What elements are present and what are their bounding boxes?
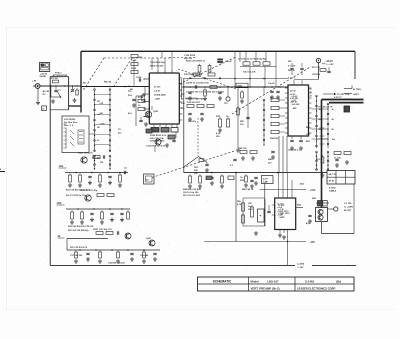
supply entry circle <box>316 58 320 62</box>
svg-text:1/2b: 1/2b <box>57 202 62 205</box>
svg-text:45A: 45A <box>297 204 301 207</box>
svg-text:C39 R40: C39 R40 <box>140 254 149 257</box>
wire IC3 down to border <box>287 230 289 266</box>
legend small box lower <box>42 106 47 111</box>
volts-div switch box S102 <box>62 116 89 153</box>
wire vertical x184 <box>183 79 185 173</box>
ground C175 <box>206 168 208 170</box>
svg-text:C31 R32 100 C33 10p R35: C31 R32 100 C33 10p R35 220 C36 R37 <box>186 92 225 94</box>
transistor Q2a <box>81 157 87 163</box>
svg-text:L16V: L16V <box>248 209 254 211</box>
IC301 left pins <box>272 204 275 206</box>
wire attenuator to IC1 <box>81 86 149 88</box>
svg-text:47p: 47p <box>306 222 310 225</box>
resistor top right <box>320 69 326 72</box>
svg-text:VERT. PREAMP (5b-2): VERT. PREAMP (5b-2) <box>251 287 280 291</box>
wire IC1 to IC2 main signal <box>182 86 288 88</box>
capacitor on x248 <box>246 116 249 118</box>
svg-text:C106: C106 <box>136 77 142 79</box>
svg-text:- 4287: - 4287 <box>154 98 161 101</box>
svg-text:C65 C66 0.1: C65 C66 0.1 <box>288 150 301 152</box>
svg-text:x10: x10 <box>97 114 100 116</box>
wire +15V rail <box>260 189 307 191</box>
resistor R60 vertical <box>242 201 244 203</box>
switch wafer right A contacts <box>316 96 318 148</box>
svg-text:C201 R202 22p: C201 R202 22p <box>150 62 165 64</box>
switch wafer contacts left of IC2 <box>263 100 265 145</box>
IC101 preamp block <box>149 73 179 124</box>
svg-text:1/2a: 1/2a <box>59 165 64 168</box>
capacitor C110 <box>139 119 142 121</box>
svg-text:Q101: Q101 <box>153 111 159 113</box>
IC301 right pin <box>296 207 303 209</box>
vertical join 3b <box>66 239 68 251</box>
dashed board outline diagonal D3 <box>152 151 236 178</box>
resistor R111 <box>138 108 145 111</box>
wire from switch to ladder <box>89 133 95 135</box>
attenuator switch wafer S1-B contacts <box>109 90 111 152</box>
page edge bottom <box>5 309 395 311</box>
ground right ladder <box>322 173 324 175</box>
resistor R61 vertical <box>242 213 244 215</box>
capacitor C106 <box>138 78 140 81</box>
svg-text:3P 41: 3P 41 <box>329 180 335 183</box>
IC101 bottom pins <box>153 124 155 127</box>
svg-text:41: 41 <box>310 88 312 91</box>
svg-text:1M: 1M <box>97 101 100 103</box>
svg-text:MODE: MODE <box>40 76 47 78</box>
svg-text:Model: Model <box>251 279 259 283</box>
coupling switch arm <box>57 91 61 97</box>
resistor R172 <box>207 105 214 108</box>
transistor Q102 <box>155 139 161 145</box>
svg-text:41 TRIG: 41 TRIG <box>353 88 361 91</box>
resistor R174 vertical <box>227 117 229 119</box>
IC301 trigger pickoff block <box>275 198 296 230</box>
svg-text:S1-2 ATT: S1-2 ATT <box>92 157 102 160</box>
resistor R2b1 <box>97 194 104 197</box>
svg-text:+: + <box>260 214 262 218</box>
wire input to attenuator <box>40 85 50 87</box>
right ladder lower section A <box>316 152 318 170</box>
svg-text:R31 C32 R33 4.7k: R31 C32 R33 4.7k <box>70 246 88 249</box>
hanging comps 3b <box>75 250 77 252</box>
wire rail 1-2a <box>65 172 128 174</box>
svg-text:1M: 1M <box>97 127 100 129</box>
svg-text:→ +15V: → +15V <box>307 190 316 192</box>
capacitor top right <box>327 70 330 72</box>
wire column left of IC1 <box>133 60 135 87</box>
capacitor C160 <box>194 85 196 88</box>
capacitor C170 <box>188 112 191 114</box>
svg-text:+ IN: + IN <box>32 81 36 83</box>
resistor R161 to ground <box>204 88 206 90</box>
svg-text:R15 R16 R17: R15 R16 R17 <box>187 102 201 104</box>
title block column divider 1 <box>248 277 250 291</box>
capacitor C152 <box>290 67 293 69</box>
resistor R50 <box>334 152 341 155</box>
wire rail 3b upper <box>67 238 108 240</box>
ground input box <box>52 99 54 101</box>
resistor R152 <box>253 62 260 65</box>
svg-text:u A 01: u A 01 <box>154 90 161 93</box>
svg-text:R1 1M: R1 1M <box>51 78 58 80</box>
svg-text:LBO-517: LBO-517 <box>267 279 279 283</box>
trim cap above IC3 <box>250 179 253 181</box>
svg-text:x2: x2 <box>97 140 99 142</box>
svg-text:→ +15.2V: → +15.2V <box>323 61 334 63</box>
right ladder lower section B <box>327 152 329 170</box>
wire long rail y173 <box>184 172 327 174</box>
transistor Q101 <box>145 111 151 117</box>
svg-text:(+28V): (+28V) <box>298 263 305 265</box>
resistor R106 <box>142 93 144 95</box>
svg-text:4.2V P-P: 4.2V P-P <box>334 96 342 99</box>
dashed vertical near peak <box>197 118 199 156</box>
svg-text:41 B: 41 B <box>353 99 358 102</box>
IC101 left pins <box>143 78 149 80</box>
ladder rung ticks left <box>95 94 111 96</box>
resistor R171 <box>197 105 204 108</box>
svg-text:G 1 YEL: G 1 YEL <box>344 203 353 205</box>
svg-text:VOLTS/DIV: VOLTS/DIV <box>64 119 76 121</box>
IC301 top pins <box>278 194 280 198</box>
svg-text:50m .1 .2: 50m .1 .2 <box>64 125 74 127</box>
IC101 right pins <box>179 77 182 79</box>
board border left <box>49 77 51 266</box>
cluster right of y173 rail comps <box>245 174 247 176</box>
resistor R110 <box>138 100 145 103</box>
svg-text:IC 101: IC 101 <box>154 87 161 89</box>
electrolytic capacitor C60 <box>258 209 265 222</box>
svg-text:47u: 47u <box>128 112 132 115</box>
junction diode pair <box>318 201 322 207</box>
test point TP1 <box>226 97 230 101</box>
svg-text:C150 R150: C150 R150 <box>184 55 196 57</box>
wire rail 3b lower <box>67 249 160 251</box>
resistor R2b2 <box>107 194 114 197</box>
stub supply to IC2 <box>318 63 320 80</box>
wire <box>135 96 137 126</box>
svg-text:(5b): (5b) <box>336 279 341 283</box>
svg-text:R72 1k: R72 1k <box>316 159 324 161</box>
resistor R51 <box>344 152 351 155</box>
wire cable box drop <box>353 184 355 234</box>
switch wiper arrows <box>65 128 67 148</box>
board inner dashed diagonal a <box>86 58 104 86</box>
svg-text:C2a 42: C2a 42 <box>225 60 232 63</box>
input BNC connector J1 <box>35 84 40 89</box>
blobs below y173 rail <box>206 176 212 180</box>
wire to IC1 pin <box>151 106 153 110</box>
wire output box bottom down and right <box>321 222 323 234</box>
title block column divider 2 <box>294 277 296 291</box>
transistor Q3b <box>149 240 155 246</box>
capacitor left of IC1 extra <box>132 98 135 100</box>
svg-text:0.1 C52: 0.1 C52 <box>288 65 296 67</box>
svg-text:0.1 0.1: 0.1 0.1 <box>288 78 295 80</box>
delay line to CRT upper wire <box>322 99 364 101</box>
resistor R163 <box>241 90 243 92</box>
wire x264 down to IC3 area <box>264 184 266 200</box>
right tail 1-2a <box>124 167 127 169</box>
svg-text:C37 R38 220: C37 R38 220 <box>70 255 83 257</box>
svg-text:S-1402: S-1402 <box>305 279 314 283</box>
vertical resistor x209 <box>209 64 211 66</box>
svg-text:5m 10m 20m: 5m 10m 20m <box>64 122 77 124</box>
attenuator ladder lower S1-D <box>109 156 111 169</box>
capacitor C121 <box>172 139 175 141</box>
svg-text:R53 1k: R53 1k <box>288 70 296 72</box>
svg-text:Q301: Q301 <box>146 238 152 240</box>
resistor R102 inside shield <box>76 88 78 90</box>
svg-text:-42P 41: -42P 41 <box>290 101 298 104</box>
capacitor C162 to ground <box>218 91 221 93</box>
IC101 top pins <box>157 70 159 73</box>
svg-text:L +15V: L +15V <box>327 64 335 66</box>
resistor R155 <box>193 73 200 76</box>
svg-text:→ -15V: → -15V <box>307 242 315 244</box>
svg-text:u1 B: u1 B <box>278 207 283 209</box>
svg-text:R120 R121 4.7k: R120 R121 4.7k <box>150 134 167 137</box>
caps right lower <box>335 158 338 160</box>
junction dots y78 rail <box>204 78 206 80</box>
transistor Q2b <box>85 195 91 201</box>
output terminal <box>334 207 338 211</box>
vertical stubs to top border <box>234 51 236 66</box>
svg-text:0.41 241: 0.41 241 <box>290 97 299 100</box>
wire x236 rail to -15V <box>235 173 237 242</box>
wire main output vertical bold <box>321 100 323 208</box>
wire IC3 verticals up <box>278 173 280 194</box>
svg-text:22p 10k: 22p 10k <box>184 58 193 60</box>
svg-text:-142P: -142P <box>278 214 284 217</box>
resistor left of IC1 extra <box>131 55 138 58</box>
extra res under right ladder <box>322 155 324 157</box>
svg-text:DC: DC <box>43 94 47 96</box>
hanging comps 1-2b <box>71 210 73 212</box>
vertical wire x238 down <box>237 87 239 148</box>
svg-text:C8 R9 1k C10 R12 100: C8 R9 1k C10 R12 100 <box>186 83 210 85</box>
stubs above IC1 <box>151 58 153 70</box>
IC301 bottom pins <box>279 230 281 234</box>
resistor R105 <box>131 71 138 74</box>
attenuator input box <box>50 76 68 78</box>
switch wafer right B contacts <box>327 104 329 148</box>
svg-text:1k 100: 1k 100 <box>334 158 341 160</box>
IC201 top pins <box>293 80 295 85</box>
svg-text:C34 R35 C36 220: C34 R35 C36 220 <box>108 262 125 265</box>
svg-text:R41 4.7k C42 R43: R41 4.7k C42 R43 <box>186 98 204 101</box>
ground below IC1 <box>166 143 168 145</box>
more arrow labels right edge <box>344 98 352 100</box>
wire rail y78 <box>183 78 288 80</box>
svg-text:100 1k 10p 100: 100 1k 10p 100 <box>183 192 199 194</box>
svg-text:1L +GRN: 1L +GRN <box>344 206 353 208</box>
svg-text:R40 C41: R40 C41 <box>238 147 247 150</box>
capacitor C105 <box>131 63 138 66</box>
resistor R151 <box>243 62 250 65</box>
ground Q101 emitter <box>145 122 147 124</box>
vertical wire x248 down <box>247 87 249 128</box>
svg-text:IC 301: IC 301 <box>278 204 285 206</box>
resistor stack left of IC2 <box>271 98 279 101</box>
svg-text:PCB-1: PCB-1 <box>55 72 62 74</box>
bal box <box>262 176 274 184</box>
wires IC2 pins to ladders <box>312 108 317 110</box>
wire down from IC1 area <box>154 145 156 152</box>
svg-text:A 1P: A 1P <box>263 178 268 181</box>
arrow to CRT pcb <box>323 93 334 95</box>
svg-text:LAM 1: LAM 1 <box>353 93 360 96</box>
svg-text:C21 R22 1k C23 R24 22p R: C21 R22 1k C23 R24 22p R26 <box>238 58 267 61</box>
svg-text:C1MP 1210: C1MP 1210 <box>278 211 290 213</box>
svg-text:u2 23: u2 23 <box>290 94 296 96</box>
dashed board outline diagonal D1 <box>179 57 237 85</box>
capacitor C45 <box>308 214 311 216</box>
cluster below-left of IC2 <box>240 151 247 154</box>
svg-text:R34 R35: R34 R35 <box>270 137 279 140</box>
boxed label on main wire <box>236 83 248 88</box>
wire stubs resistor stack to IC2 <box>279 99 285 101</box>
trimmer C103 inside shield <box>71 89 74 91</box>
resistor R173 vertical <box>219 117 221 119</box>
resistor R160 <box>210 86 217 89</box>
vertical resistor x199 <box>199 64 201 66</box>
arrow label trig out <box>344 93 352 95</box>
ticks along output vertical <box>320 127 325 129</box>
board inner dashed diagonal b <box>114 58 132 86</box>
wire ladder top <box>263 87 265 95</box>
wires IC101 top to border <box>157 58 159 70</box>
cluster below y173 rail <box>189 174 191 176</box>
resistor R156 <box>208 73 215 76</box>
supply circle inner <box>318 60 319 61</box>
svg-text:← 41A: ← 41A <box>297 183 304 186</box>
svg-text:CABLE: CABLE <box>329 190 337 193</box>
ground R173 <box>219 128 221 130</box>
svg-text:49 CRT: 49 CRT <box>344 209 352 212</box>
board inner dashed top <box>104 57 172 59</box>
IC201 delay driver block <box>288 85 309 136</box>
board border bottom <box>50 264 295 266</box>
wire IC2 bottoms down <box>278 136 280 173</box>
svg-text:TO CRT PCB: TO CRT PCB <box>337 94 350 96</box>
capacitor C241 <box>276 90 279 92</box>
dark blobs below IC1 <box>146 129 152 133</box>
svg-text:R301 C30 10k C31: R301 C30 10k C31 <box>93 229 113 231</box>
grounds above cable box <box>346 160 348 162</box>
svg-text:22: 22 <box>310 95 312 97</box>
small dark box right <box>344 106 350 112</box>
dashed board outline horizontal top <box>169 57 197 59</box>
svg-text:100 47p: 100 47p <box>188 120 197 123</box>
capacitor C211 <box>299 139 302 141</box>
resistor R101 <box>53 80 59 83</box>
delay line to CRT lower wire <box>329 102 364 104</box>
polarized capacitor C175 <box>205 163 208 165</box>
wire diagonal into junction <box>184 157 199 168</box>
svg-text:LD 02: LD 02 <box>290 91 297 93</box>
wire frame left of IC3 <box>242 198 244 226</box>
capacitor C240 <box>270 90 273 92</box>
bold wire left of IC3 <box>264 199 266 226</box>
IC201 left pins <box>285 87 288 89</box>
capacitor C210 <box>290 139 293 141</box>
dashed board outline diagonal D2 <box>232 67 311 115</box>
wire supply down <box>318 63 320 79</box>
svg-text:L-15V: L-15V <box>298 267 304 269</box>
ground outside <box>37 101 39 103</box>
svg-text:LEADER ELECTRONICS CORP.: LEADER ELECTRONICS CORP. <box>297 287 336 291</box>
svg-text:SCHEMATIC: SCHEMATIC <box>213 279 232 283</box>
svg-text:↓: ↓ <box>34 103 35 106</box>
page edge left <box>6 28 8 311</box>
wire stubs to top border <box>245 51 247 62</box>
svg-text:R22 C23 R24 220 C25 C26: R22 C23 R24 220 C25 C26 <box>68 225 94 228</box>
svg-text:220 C17 R18 1k C19: 220 C17 R18 1k C19 <box>66 195 86 197</box>
svg-text:1M: 1M <box>100 162 103 164</box>
capacitor C153 <box>300 67 303 69</box>
interconnect box 5b-1 <box>144 174 155 184</box>
resistor on x238 <box>237 106 239 108</box>
ground inside shield <box>74 98 76 100</box>
stub verticals top band <box>239 51 241 62</box>
svg-text:R110: R110 <box>138 97 144 99</box>
board border right stub <box>354 51 356 79</box>
svg-text:R71 C72: R71 C72 <box>312 67 321 69</box>
wire output to terminal <box>328 208 335 210</box>
resistor R153 <box>263 62 270 65</box>
ground under C60 <box>255 231 257 233</box>
board border bottom right segment <box>312 265 356 267</box>
attenuator switch wafer S1-A contacts <box>94 90 96 152</box>
arrow label REF out <box>344 88 352 90</box>
svg-text:R201 C20 4.7k: R201 C20 4.7k <box>78 152 93 155</box>
svg-text:- 42P: - 42P <box>292 107 298 110</box>
svg-text:R1b 1M: R1b 1M <box>104 82 111 84</box>
capacitor C2a <box>102 155 104 158</box>
svg-text:ATTENUATOR: ATTENUATOR <box>53 74 68 77</box>
hanging resistors 1-2a <box>69 173 71 175</box>
svg-text:C55 R56: C55 R56 <box>312 74 321 76</box>
svg-text:R24 R25 C30 R26: R24 R25 C30 R26 <box>183 188 202 191</box>
resistor R62 <box>251 205 253 207</box>
label left edge mark <box>0 171 5 173</box>
shield partition bottom bold <box>69 105 81 107</box>
svg-text:LAB: LAB <box>263 181 268 184</box>
svg-text:01424-2445: 01424-2445 <box>154 94 166 97</box>
ground x238 <box>237 148 239 150</box>
board border left bold vertical <box>80 51 82 112</box>
volts div inner ticks <box>64 123 67 125</box>
svg-text:F-1502: F-1502 <box>329 188 336 190</box>
resistor R170 <box>187 105 194 108</box>
resistor R2a1 <box>93 156 100 159</box>
svg-text:220 C31 4.7k R33: 220 C31 4.7k R33 <box>183 194 201 197</box>
board border top bold <box>81 50 355 52</box>
grounds below IC3 <box>279 233 281 235</box>
IC201 right pins <box>309 87 312 89</box>
attenuator ladder lower S1-C <box>94 156 96 169</box>
svg-text:AC 8D: AC 8D <box>43 90 50 93</box>
svg-text:Q102 2SC1815: Q102 2SC1815 <box>150 141 165 143</box>
capacitor C161 to ground <box>188 91 191 93</box>
dark label stack A10 <box>218 59 223 61</box>
svg-text:C125 R126 220 4.7k: C125 R126 220 4.7k <box>146 145 166 148</box>
output transistor box <box>316 208 328 222</box>
top comps 3b <box>96 232 103 235</box>
